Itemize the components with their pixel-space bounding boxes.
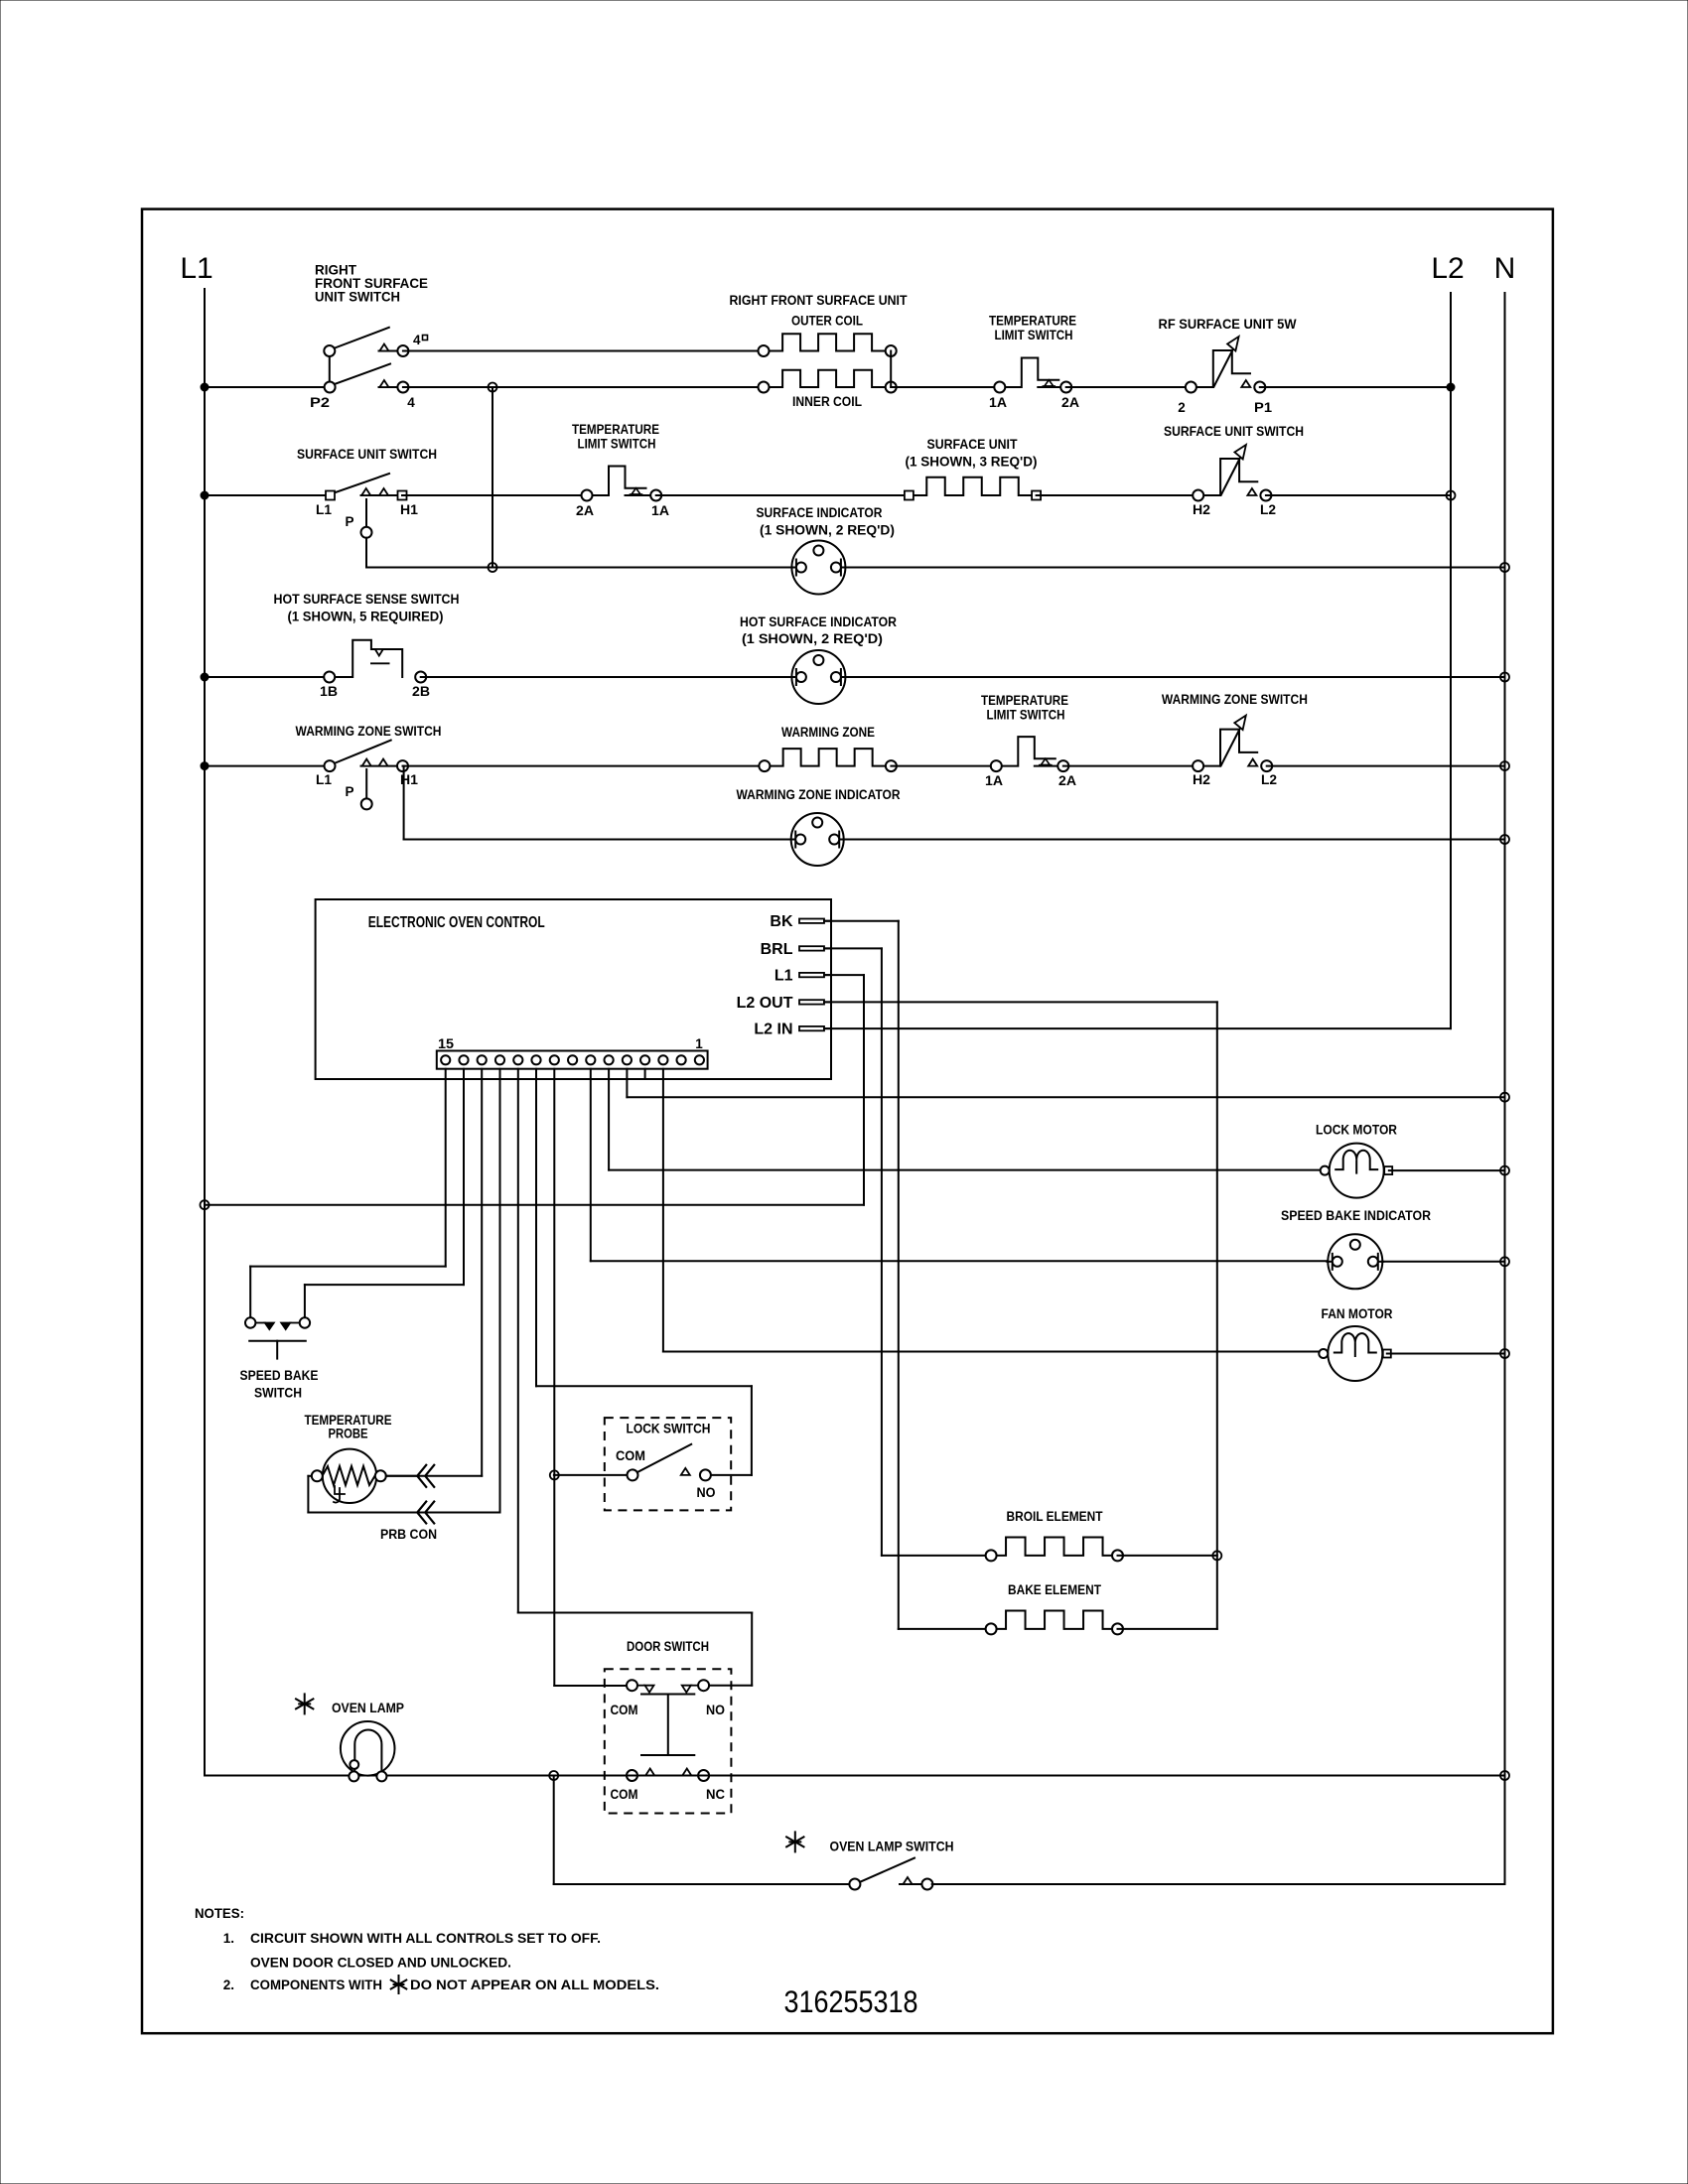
motor fan motor [1328, 1326, 1382, 1381]
junction row1 on L1 rail [201, 383, 209, 391]
svg-text:N: N [1494, 252, 1516, 285]
junction pin9 at lock switch COM line [550, 1470, 559, 1479]
wire pin3 to fan motor [662, 1069, 664, 1352]
svg-text:COM: COM [611, 1787, 638, 1802]
svg-text:L2: L2 [1261, 772, 1277, 787]
wire pin7 to speed bake indicator [590, 1069, 592, 1262]
switch door switch lower COM-NC [627, 1770, 637, 1781]
wire pin15 to speed bake [445, 1069, 447, 1267]
svg-text:ELECTRONIC OVEN CONTROL: ELECTRONIC OVEN CONTROL [368, 914, 545, 931]
border frame [142, 209, 1553, 2034]
svg-text:UNIT SWITCH: UNIT SWITCH [315, 290, 400, 305]
switch surface unit switch row2 right [1198, 494, 1220, 496]
junction fan motor at N rail [1500, 1349, 1509, 1358]
junction pin5 wire at N rail [1500, 1093, 1509, 1102]
lamp oven lamp [341, 1721, 395, 1776]
wire N rail [1504, 293, 1506, 1884]
svg-text:WARMING ZONE SWITCH: WARMING ZONE SWITCH [1162, 692, 1308, 707]
electronic oven control box [316, 899, 831, 1079]
svg-text:TEMPERATURE: TEMPERATURE [981, 693, 1068, 708]
switch hot surface sense switch [330, 640, 403, 677]
svg-text:LOCK MOTOR: LOCK MOTOR [1316, 1123, 1397, 1138]
EOC terminal strip [437, 1051, 708, 1069]
junction row1 at L2 rail [1447, 383, 1455, 391]
svg-text:WARMING ZONE SWITCH: WARMING ZONE SWITCH [296, 724, 442, 739]
svg-text:2A: 2A [1061, 395, 1079, 410]
svg-text:4: 4 [407, 395, 415, 410]
wire L2 rail [1450, 293, 1452, 1028]
switch RF surface unit SW [1191, 386, 1212, 388]
svg-text:LIMIT SWITCH: LIMIT SWITCH [578, 437, 656, 452]
wire broil feed [882, 1555, 991, 1557]
wire BRL to broil feed [824, 947, 882, 949]
wire fan motor to N [1387, 1353, 1505, 1355]
svg-text:SURFACE UNIT: SURFACE UNIT [927, 437, 1019, 452]
svg-text:2.: 2. [223, 1978, 234, 1992]
wire row4 warming zone to 1A [891, 765, 996, 767]
asterisk note 2 [398, 1976, 400, 1993]
svg-text:NOTES:: NOTES: [195, 1906, 244, 1921]
switch temperature limit switch row2 [587, 467, 646, 496]
wire lamp switch feed [553, 1776, 555, 1885]
svg-text:SURFACE UNIT SWITCH: SURFACE UNIT SWITCH [1164, 424, 1304, 439]
switch oven lamp switch [860, 1858, 915, 1882]
svg-text:DO NOT APPEAR ON ALL MODELS.: DO NOT APPEAR ON ALL MODELS. [410, 1978, 659, 1992]
svg-text:SWITCH: SWITCH [254, 1386, 302, 1401]
svg-text:L1: L1 [316, 772, 332, 787]
junction L1 wire at L1 rail [201, 1200, 210, 1209]
svg-text:COMPONENTS WITH: COMPONENTS WITH [250, 1978, 382, 1992]
door switch actuator [641, 1694, 694, 1696]
wire row1 inner coil to 1A [891, 386, 1000, 388]
lamp speed bake indicator [1328, 1234, 1382, 1289]
resistor inner coil [764, 370, 891, 387]
svg-text:(1 SHOWN, 5 REQUIRED): (1 SHOWN, 5 REQUIRED) [288, 610, 444, 624]
svg-text:LOCK SWITCH: LOCK SWITCH [627, 1422, 711, 1436]
junction row3 at N rail [1500, 673, 1509, 682]
svg-text:RIGHT FRONT SURFACE UNIT: RIGHT FRONT SURFACE UNIT [730, 293, 909, 308]
svg-text:H2: H2 [1193, 502, 1210, 517]
wire L1 rail [204, 289, 206, 1776]
wire row4 2A to H2 [1063, 765, 1198, 767]
switch warming zone switch right [1198, 765, 1220, 767]
svg-text:P: P [345, 514, 353, 529]
svg-text:LIMIT SWITCH: LIMIT SWITCH [987, 708, 1065, 723]
wire probe top to chevron [386, 1475, 417, 1477]
resistor warming zone [765, 749, 892, 766]
wire L1 bottom long line [205, 1775, 1505, 1777]
svg-text:BAKE ELEMENT: BAKE ELEMENT [1008, 1582, 1102, 1597]
wire row3 indicator to N [845, 676, 1504, 678]
wire row1 lower 4 to inner coil [403, 386, 764, 388]
wire speed bake indicator to N [1382, 1261, 1504, 1263]
svg-text:2A: 2A [576, 503, 594, 518]
wire lock motor to N [1389, 1169, 1505, 1171]
wire bake to L2OUT [1118, 1628, 1217, 1630]
junction bottom line lamp feed [549, 1771, 558, 1780]
svg-text:SPEED BAKE: SPEED BAKE [240, 1368, 319, 1383]
wire L2 OUT [824, 1001, 1217, 1003]
svg-text:INNER COIL: INNER COIL [792, 394, 862, 409]
lamp hot surface indicator [791, 650, 845, 704]
svg-text:CIRCUIT SHOWN WITH ALL CONTROL: CIRCUIT SHOWN WITH ALL CONTROLS SET TO O… [250, 1931, 601, 1946]
svg-text:(1 SHOWN, 3 REQ'D): (1 SHOWN, 3 REQ'D) [906, 455, 1038, 470]
junction row2 on L1 rail [201, 491, 209, 499]
wire coil link [890, 351, 892, 388]
junction surface indicator at N rail [1500, 563, 1509, 572]
switch temperature limit switch row4 [996, 737, 1055, 766]
svg-text:OVEN LAMP: OVEN LAMP [332, 1701, 404, 1715]
svg-text:COM: COM [616, 1448, 645, 1463]
switch S1 right front surface unit switch [329, 351, 331, 388]
wire row1 upper 4o to outer coil [403, 350, 764, 352]
svg-text:SPEED BAKE INDICATOR: SPEED BAKE INDICATOR [1281, 1208, 1431, 1223]
svg-text:BK: BK [770, 913, 793, 930]
svg-text:2: 2 [1178, 400, 1186, 415]
resistor outer coil [764, 334, 891, 350]
svg-text:WARMING ZONE: WARMING ZONE [781, 725, 875, 740]
wire row3 2B to indicator [421, 676, 792, 678]
svg-text:P: P [345, 784, 353, 799]
resistor surface unit [909, 478, 1036, 495]
asterisk oven lamp switch [794, 1832, 796, 1851]
wire row2 surface unit to H2 [1037, 494, 1198, 496]
svg-text:1B: 1B [320, 684, 338, 699]
svg-text:L2: L2 [1260, 502, 1276, 517]
svg-text:H1: H1 [400, 502, 419, 517]
switch temperature limit switch row1 [1000, 358, 1059, 388]
lock switch dashed box [605, 1418, 731, 1510]
junction speed bake indicator at N rail [1500, 1257, 1509, 1266]
wire pin10 to lock switch NO [535, 1069, 537, 1387]
wire H1 to warming zone indicator [403, 766, 405, 840]
resistor bake element [991, 1611, 1117, 1629]
wire trunk vertical [492, 387, 493, 568]
junction lock motor at N rail [1500, 1166, 1509, 1175]
wire probe bottom line chevron [417, 1502, 426, 1524]
svg-text:2B: 2B [412, 684, 430, 699]
svg-text:PROBE: PROBE [329, 1427, 368, 1441]
wire pin13 to probe [481, 1069, 483, 1476]
wire row1 L1 to P2 [205, 386, 325, 388]
wire row2 1A to surface unit [656, 494, 910, 496]
svg-text:L2 IN: L2 IN [754, 1022, 792, 1038]
svg-text:L1: L1 [180, 252, 212, 285]
svg-text:PRB CON: PRB CON [380, 1527, 437, 1542]
svg-text:L2 OUT: L2 OUT [737, 995, 793, 1012]
junction bottom line at N rail [1500, 1771, 1509, 1780]
door switch dashed box [605, 1669, 732, 1813]
asterisk oven lamp [304, 1694, 306, 1713]
svg-text:1A: 1A [989, 395, 1007, 410]
lamp surface indicator [791, 541, 845, 595]
wire row1 2A to RF switch [1066, 386, 1192, 388]
wire P to surface indicator [365, 538, 367, 568]
svg-text:OVEN DOOR CLOSED AND UNLOCKED.: OVEN DOOR CLOSED AND UNLOCKED. [250, 1956, 511, 1971]
wire row2 H1 to 2A [402, 494, 587, 496]
svg-text:NO: NO [697, 1485, 716, 1500]
wire lamp switch to N rail [932, 1883, 1505, 1885]
wire pin9 to lock COM and door COM [553, 1069, 555, 1686]
wire bake feed [899, 1628, 991, 1630]
junction warming indicator at N rail [1500, 835, 1509, 844]
svg-text:(1 SHOWN, 2 REQ'D): (1 SHOWN, 2 REQ'D) [760, 523, 895, 538]
svg-text:TEMPERATURE: TEMPERATURE [989, 314, 1076, 329]
wire row2 L2 to L2 rail [1266, 494, 1451, 496]
svg-text:WARMING ZONE INDICATOR: WARMING ZONE INDICATOR [737, 787, 901, 802]
svg-text:LIMIT SWITCH: LIMIT SWITCH [995, 328, 1073, 342]
svg-text:1: 1 [695, 1036, 703, 1051]
wire L2 IN [824, 1027, 1451, 1029]
svg-text:NC: NC [706, 1787, 725, 1802]
svg-text:HOT SURFACE SENSE SWITCH: HOT SURFACE SENSE SWITCH [274, 592, 460, 607]
wire pin11 to door switch NO [517, 1069, 519, 1613]
svg-text:L1: L1 [774, 968, 793, 985]
svg-text:L1: L1 [316, 502, 332, 517]
wire row4 L1 to switch [205, 765, 325, 767]
wire row3 L1 to 1B [205, 676, 330, 678]
svg-text:OVEN LAMP SWITCH: OVEN LAMP SWITCH [830, 1840, 954, 1854]
junction row4 on L1 rail [201, 762, 209, 770]
svg-text:HOT SURFACE INDICATOR: HOT SURFACE INDICATOR [740, 614, 897, 629]
wire surface indicator to N [845, 567, 1504, 569]
svg-text:TEMPERATURE: TEMPERATURE [572, 422, 659, 437]
wire row4 H1 to warming zone [403, 765, 765, 767]
svg-text:NO: NO [706, 1703, 725, 1717]
wire pin6 to lock motor [608, 1069, 610, 1170]
switch warming zone switch [335, 741, 391, 763]
svg-text:FAN MOTOR: FAN MOTOR [1322, 1306, 1393, 1321]
svg-text:1A: 1A [651, 503, 669, 518]
svg-text:DOOR SWITCH: DOOR SWITCH [627, 1639, 709, 1654]
junction row4 at N rail [1500, 761, 1509, 770]
svg-text:OUTER COIL: OUTER COIL [791, 314, 863, 329]
wire BK to bake feed [824, 920, 899, 922]
wire row1 P1 to L2 rail [1260, 386, 1451, 388]
wire L1 out [824, 974, 864, 976]
svg-text:(1 SHOWN, 2 REQ'D): (1 SHOWN, 2 REQ'D) [742, 631, 883, 646]
wire warming zone indicator to N [844, 839, 1505, 841]
svg-text:L2: L2 [1431, 252, 1464, 285]
svg-text:4: 4 [413, 333, 421, 347]
thermistor temperature probe [323, 1449, 376, 1503]
svg-text:RF SURFACE UNIT 5W: RF SURFACE UNIT 5W [1159, 317, 1297, 332]
switch speed bake switch [249, 1317, 251, 1323]
EOC terminals BK BRL L1 L2OUT L2IN [799, 919, 824, 923]
wire row2 L1 to switch [205, 494, 326, 496]
connector PRB chevron top [417, 1465, 426, 1487]
svg-text:SURFACE INDICATOR: SURFACE INDICATOR [757, 505, 883, 520]
svg-text:15: 15 [438, 1036, 455, 1051]
junction row3 on L1 rail [201, 673, 209, 681]
svg-text:P1: P1 [1254, 400, 1273, 415]
wire broil to L2OUT [1118, 1555, 1217, 1557]
resistor broil element [991, 1538, 1117, 1556]
svg-text:2A: 2A [1058, 773, 1076, 788]
wire pin12 to probe return [499, 1069, 501, 1513]
svg-text:COM: COM [611, 1703, 638, 1717]
wire row4 L2 to N rail [1267, 765, 1505, 767]
switch surface unit switch row2 [335, 474, 390, 493]
junction broil at L2OUT wire [1212, 1551, 1221, 1560]
junction row1 trunk [489, 383, 497, 392]
wire pin4 stub [644, 1069, 646, 1079]
wire pin14 to speed bake [463, 1069, 465, 1285]
svg-text:H2: H2 [1193, 772, 1210, 787]
svg-text:316255318: 316255318 [784, 1983, 918, 2019]
svg-text:1.: 1. [223, 1931, 234, 1946]
svg-text:BROIL ELEMENT: BROIL ELEMENT [1007, 1509, 1104, 1524]
wire pin5 to N [626, 1069, 628, 1098]
switch door switch upper COM-NO [627, 1680, 637, 1691]
junction row2 at L2 rail [1447, 491, 1456, 500]
lamp warming zone indicator [791, 813, 844, 866]
svg-text:P2: P2 [310, 395, 330, 410]
junction trunk at indicator line [489, 563, 497, 572]
switch lock switch [554, 1474, 628, 1476]
motor lock motor [1330, 1144, 1384, 1198]
svg-text:BRL: BRL [761, 941, 793, 958]
EOC strip pin circles [441, 1055, 450, 1064]
svg-text:SURFACE UNIT SWITCH: SURFACE UNIT SWITCH [297, 447, 437, 462]
svg-text:1A: 1A [985, 773, 1003, 788]
